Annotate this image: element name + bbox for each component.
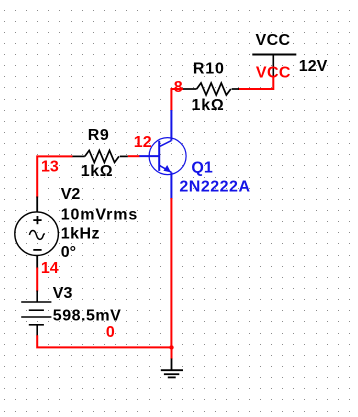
wire VCC rail to R10 <box>238 77 273 90</box>
svg-text:12: 12 <box>134 134 152 151</box>
wire R9 to Q1 base <box>128 155 140 157</box>
transistor Q1 (2N2222A) <box>139 110 186 199</box>
wire node 8: R10 to Q1 collector <box>171 89 183 111</box>
svg-text:598.5mV: 598.5mV <box>53 307 121 324</box>
power rail VCC symbol <box>252 55 296 78</box>
svg-text:8: 8 <box>174 79 183 96</box>
svg-text:R9: R9 <box>88 127 110 144</box>
svg-text:14: 14 <box>41 260 59 277</box>
junction dot node 0 <box>169 345 173 349</box>
resistor R9 <box>72 150 128 162</box>
svg-text:R10: R10 <box>193 61 225 78</box>
wire V3 minus to ground node <box>37 335 171 347</box>
resistor R10 <box>183 83 239 95</box>
wire junction to ground lead <box>171 347 173 359</box>
svg-text:2N2222A: 2N2222A <box>179 178 250 195</box>
svg-text:10mVrms: 10mVrms <box>61 207 138 224</box>
svg-text:0: 0 <box>106 324 115 341</box>
ground <box>161 359 183 378</box>
ac source V2 <box>15 197 59 269</box>
svg-text:1kΩ: 1kΩ <box>81 163 113 180</box>
wire node 13: R9 to V2 plus <box>37 156 72 197</box>
svg-text:1kHz: 1kHz <box>61 225 100 242</box>
svg-text:1kΩ: 1kΩ <box>192 97 225 114</box>
svg-text:12V: 12V <box>299 58 328 75</box>
svg-text:V2: V2 <box>61 186 81 203</box>
svg-text:0°: 0° <box>61 244 76 261</box>
svg-text:Q1: Q1 <box>191 159 212 176</box>
wire V2 minus to V3 plus <box>36 268 38 292</box>
svg-text:V3: V3 <box>53 285 73 302</box>
svg-text:13: 13 <box>41 159 59 176</box>
wire Q1 emitter down to node 0 <box>170 198 172 347</box>
battery V3 <box>21 291 51 337</box>
svg-text:VCC: VCC <box>256 32 291 49</box>
